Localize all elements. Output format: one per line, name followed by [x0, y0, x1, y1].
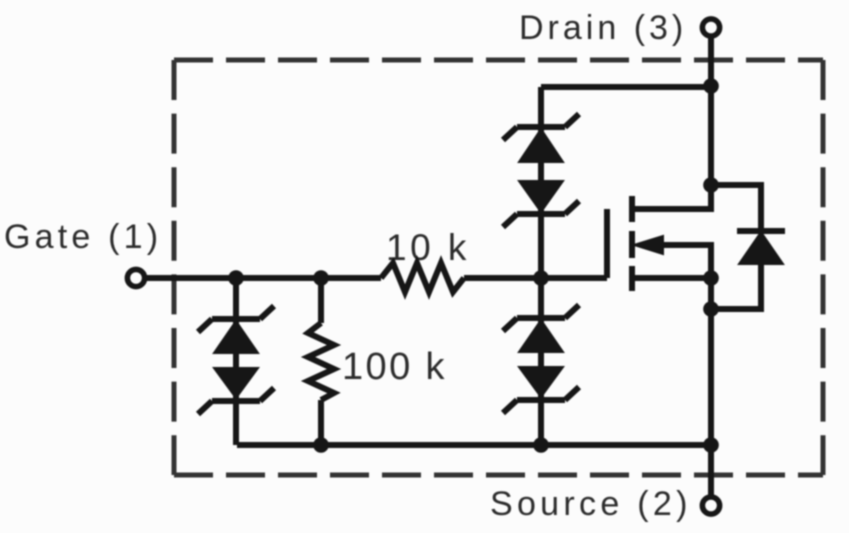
wire source trunk — [708, 278, 714, 445]
terminal gate pin 1 — [127, 269, 144, 286]
junction source-bottomrail — [703, 437, 719, 453]
wire source terminal drop — [708, 445, 714, 496]
wire trunk diode tap — [708, 278, 714, 309]
mosfet Q1 gate plate — [604, 209, 610, 278]
zener D6 left gate-source clamp, cathode down — [198, 368, 274, 414]
terminal drain pin 3 — [702, 19, 719, 36]
dashed package outline — [174, 60, 823, 475]
svg-text:10 k: 10 k — [386, 227, 470, 268]
wire body diode bottom — [711, 264, 761, 309]
diode D7 body diode — [737, 231, 785, 264]
junction drain-toprail — [703, 78, 719, 94]
junction gate-100k — [313, 270, 329, 286]
wire upper zener chain — [538, 87, 544, 278]
junction 100k-bottomrail — [313, 437, 329, 453]
junction source-body — [703, 270, 719, 286]
wire 100k top lead — [318, 278, 324, 323]
junction zenerchain-bottomrail — [533, 437, 549, 453]
svg-text:Drain (3): Drain (3) — [519, 9, 687, 47]
mosfet Q1 body lead with arrow — [648, 245, 711, 278]
wire drain terminal drop — [708, 37, 714, 185]
zener D1 upper gate-drain clamp, cathode up — [503, 114, 579, 162]
mosfet Q1 channel dashes — [629, 196, 635, 291]
junction drain-diode — [703, 177, 719, 193]
wire gate lead — [146, 275, 381, 281]
zener D5 left gate-source clamp, cathode up — [198, 306, 274, 353]
wire lower zener chain — [538, 278, 544, 445]
zener D2 upper gate-drain clamp, cathode down — [503, 181, 579, 227]
wire left clamp branch — [233, 278, 239, 445]
junction gate-leftclamp — [228, 270, 244, 286]
wire body diode top — [711, 185, 761, 231]
zener D4 lower gate-source clamp, cathode down — [503, 367, 579, 413]
wire bottom rail — [237, 442, 711, 448]
terminal source pin 2 — [702, 497, 719, 514]
wire 100k bottom lead — [318, 400, 324, 445]
mosfet Q1 source lead — [634, 275, 711, 281]
zener D3 lower gate-source clamp, cathode up — [503, 305, 579, 352]
mosfet Q1 drain lead — [634, 185, 711, 209]
resistor R1 10 k — [381, 263, 464, 292]
resistor R2 100 k — [308, 323, 334, 400]
svg-text:100 k: 100 k — [342, 346, 447, 388]
wire top rail — [541, 84, 711, 90]
svg-text:Source (2): Source (2) — [490, 485, 692, 523]
junction source-diode — [703, 301, 719, 317]
junction gate-zenerchain — [533, 270, 549, 286]
svg-text:Gate (1): Gate (1) — [4, 218, 162, 256]
wire gate to mosfet — [464, 275, 607, 281]
